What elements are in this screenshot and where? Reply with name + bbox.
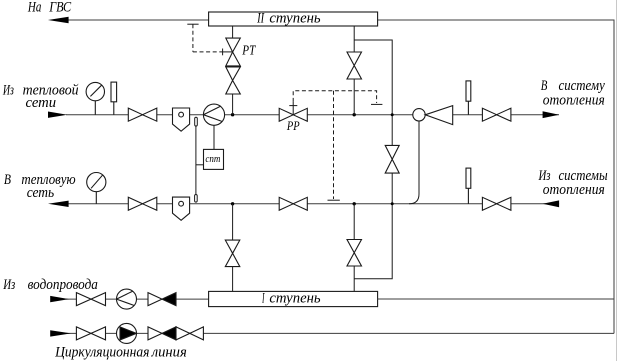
wire sensors to heat computer	[196, 126, 204, 195]
thermometer line 1 right	[466, 81, 471, 115]
thermometer line 2 right	[466, 168, 471, 204]
svg-text:отопления: отопления	[543, 182, 605, 198]
temperature sensor line 2	[195, 195, 198, 203]
svg-text:ГВС: ГВС	[48, 0, 72, 16]
wire DHW outlet pipe to GVS (left of stage II)	[60, 19, 209, 21]
svg-text:спт: спт	[205, 153, 220, 165]
svg-text:РТ: РТ	[242, 44, 257, 59]
control valve RT	[226, 38, 241, 66]
water meter line 3	[117, 289, 137, 309]
valve line 4	[76, 327, 105, 340]
svg-text:РР: РР	[286, 118, 300, 133]
wire circulation line 4	[66, 332, 614, 334]
thermometer line 1 left	[111, 82, 117, 115]
impulse lines of RR	[289, 91, 382, 200]
svg-text:В: В	[541, 78, 548, 94]
heat computer unit	[204, 149, 224, 169]
valve line 1 right	[482, 108, 511, 121]
arrow supply to heating system	[543, 111, 560, 118]
svg-text:I: I	[262, 290, 266, 306]
wire DHW pipe from stage II right side to riser	[378, 20, 614, 333]
wire bypass lower	[354, 173, 392, 279]
svg-text:ступень: ступень	[269, 10, 320, 26]
strainer line 2	[173, 197, 190, 220]
pressure gauge line 1	[86, 82, 104, 114]
elevator mixing unit	[413, 106, 453, 125]
heat exchanger stage I	[209, 291, 378, 306]
svg-text:Из: Из	[2, 277, 15, 293]
wire stage II left leg	[232, 26, 234, 115]
control valve RR	[279, 108, 307, 121]
wire bypass branch to cold water line	[354, 40, 392, 145]
check valve line 3	[148, 293, 176, 306]
valve line 2 right	[482, 197, 511, 210]
frame border right edge	[616, 0, 618, 361]
heat exchanger stage II	[209, 12, 378, 26]
arrow return outlet	[48, 201, 69, 207]
node line1 x392	[391, 113, 394, 116]
wire stage I outlet to riser	[378, 298, 614, 300]
arrow circulation	[50, 330, 71, 336]
svg-text:В: В	[4, 172, 11, 188]
arrow from water supply	[50, 296, 69, 302]
node line2 x233	[231, 202, 234, 205]
wire cold water line 3	[66, 298, 209, 300]
pressure gauge line 2	[87, 173, 106, 204]
svg-text:сети: сети	[26, 95, 57, 111]
strainer line 1	[173, 108, 190, 131]
arrow return from heating system	[543, 200, 560, 207]
wire flow meter to heat computer	[213, 125, 215, 149]
wire elevator suction from return	[409, 121, 419, 204]
node line2 x392	[391, 202, 394, 205]
impulse line to RT	[187, 24, 232, 55]
svg-text:II: II	[256, 10, 264, 26]
svg-text:сеть: сеть	[27, 185, 55, 201]
valve line 2 mid	[279, 197, 307, 210]
valve bypass	[385, 145, 399, 173]
check valve line 4	[148, 327, 176, 340]
svg-text:линия: линия	[151, 345, 187, 361]
svg-text:ступень: ступень	[269, 290, 320, 306]
wire supply main line 1	[66, 114, 559, 116]
valve stage I right	[347, 240, 362, 267]
valve line 1 left	[128, 108, 157, 121]
node line1 x233	[231, 113, 234, 116]
valve stage II right	[347, 52, 362, 79]
circulation pump	[117, 323, 137, 343]
wire stage II right leg	[353, 26, 355, 115]
svg-text:Циркуляционная: Циркуляционная	[54, 345, 149, 361]
flow meter line 1	[203, 104, 224, 125]
node line2 x354	[353, 202, 356, 205]
wire stage I left leg	[232, 204, 234, 292]
temperature sensor line 1	[195, 117, 198, 126]
svg-text:водопровода: водопровода	[28, 277, 98, 293]
svg-text:систему: систему	[559, 78, 606, 94]
valve stage II left	[226, 67, 241, 94]
arrow flow to GVS	[48, 17, 69, 24]
wire stage I right leg	[353, 204, 355, 292]
valve line 2 left	[128, 197, 157, 210]
svg-text:На: На	[27, 0, 41, 16]
wire return main line 2	[66, 203, 559, 205]
svg-text:отопления: отопления	[543, 93, 605, 109]
valve stage I left	[225, 240, 240, 267]
node line1 x354	[353, 113, 356, 116]
valve line 3	[76, 293, 105, 306]
valve line 4 right	[176, 327, 203, 340]
svg-text:Из: Из	[2, 82, 14, 98]
arrow supply inlet	[48, 112, 67, 118]
